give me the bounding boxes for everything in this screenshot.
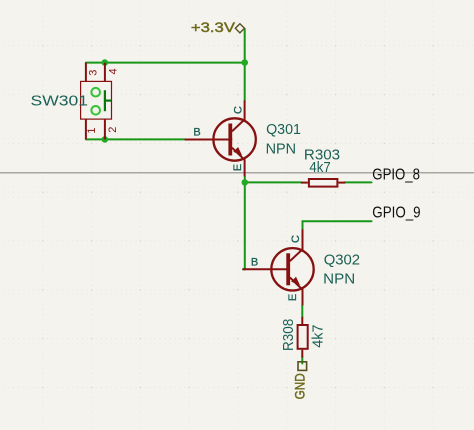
svg-text:B: B bbox=[251, 257, 258, 269]
svg-text:B: B bbox=[193, 127, 200, 139]
svg-text:SW301: SW301 bbox=[31, 92, 89, 109]
svg-text:3: 3 bbox=[88, 70, 100, 76]
svg-text:E: E bbox=[287, 294, 299, 301]
svg-text:R308: R308 bbox=[280, 319, 297, 351]
svg-text:E: E bbox=[232, 164, 244, 171]
svg-text:Q301: Q301 bbox=[266, 121, 301, 138]
svg-text:4k7: 4k7 bbox=[309, 325, 326, 348]
svg-text:2: 2 bbox=[107, 127, 119, 133]
svg-text:C: C bbox=[233, 106, 245, 114]
svg-text:+3.3V: +3.3V bbox=[191, 19, 236, 35]
svg-text:GPIO_9: GPIO_9 bbox=[372, 205, 420, 222]
svg-text:C: C bbox=[290, 235, 302, 243]
svg-text:4: 4 bbox=[108, 68, 120, 74]
svg-text:NPN: NPN bbox=[266, 140, 297, 157]
svg-text:Q302: Q302 bbox=[324, 252, 360, 269]
svg-text:GPIO_8: GPIO_8 bbox=[372, 167, 420, 184]
svg-text:1: 1 bbox=[86, 127, 98, 133]
svg-text:GND: GND bbox=[293, 373, 308, 399]
svg-text:4k7: 4k7 bbox=[309, 159, 330, 176]
svg-text:NPN: NPN bbox=[323, 271, 355, 288]
